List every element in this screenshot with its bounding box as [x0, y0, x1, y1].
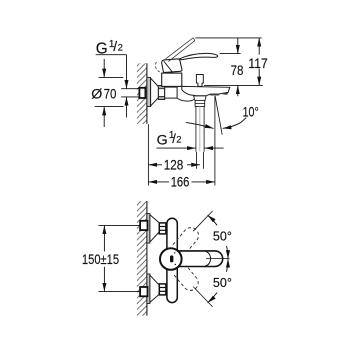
dome center black mark [170, 255, 173, 262]
dimension G1/2 (top) text [96, 38, 123, 58]
svg-text:G: G [157, 133, 168, 149]
10-degree arc right segment with arrow and leader to text [223, 118, 247, 129]
shower outlet hex block [195, 100, 205, 106]
diverter knob [196, 75, 203, 87]
shower outlet connector trapezoid [194, 96, 207, 101]
150+-15 extension lines [99, 224, 140, 226]
10-degree vertical reference line / 166 extension [214, 96, 216, 186]
upper hex nut [159, 223, 166, 234]
wall face extension line (128/166) [147, 124, 149, 185]
lever (plan view) [177, 251, 223, 267]
svg-text:/: / [113, 38, 117, 54]
handle dome [162, 59, 182, 73]
S-union hex nut (top view) [158, 86, 164, 100]
escutcheon cone top view [151, 78, 159, 106]
lower escutcheon cone [150, 275, 159, 302]
faucet body (plan, stadium) [167, 218, 177, 302]
lower hex nut [159, 284, 166, 295]
extension line spout level [204, 84, 263, 86]
dimension 117 [248, 38, 267, 86]
G1/2 extension lines [121, 88, 140, 90]
escutcheon flange (gray) top view [147, 77, 151, 106]
50-degree ray upper [193, 211, 212, 231]
dashed lever position upper (+50) [173, 225, 202, 255]
spout (top view) [182, 86, 230, 95]
O70 dimension arrows [103, 59, 105, 78]
dome circle (plan) [160, 248, 182, 270]
lower escutcheon flange (gray) [147, 274, 150, 304]
lever raised position (thin lines) [166, 38, 195, 62]
G1/2 (bottom label) text [157, 130, 182, 148]
svg-text:50°: 50° [213, 275, 232, 290]
svg-text:2: 2 [118, 43, 123, 54]
svg-text:117: 117 [248, 56, 267, 71]
lever (rest position) [179, 53, 218, 59]
dimension 128 [148, 158, 200, 173]
cartridge collar under handle [162, 73, 182, 86]
upper escutcheon cone [150, 215, 159, 242]
dimension 150+-15 [82, 225, 119, 291]
wall (top view) hatched band [137, 63, 147, 124]
svg-text:150±15: 150±15 [82, 252, 119, 268]
extension line lever rest (78) [220, 53, 241, 55]
svg-text:50°: 50° [213, 228, 232, 243]
spout aerator outlet dark detail [210, 94, 220, 96]
extension line top (117, raised lever) [195, 37, 261, 39]
handle swing dashed arc [155, 62, 159, 72]
50-degree arc lower [208, 293, 218, 303]
G1/2 top underline [96, 54, 127, 56]
G1/2 top dimension leg arrows [126, 55, 128, 89]
dashed lever position lower (-50) [173, 263, 202, 293]
dimension 166 [148, 175, 215, 190]
50-degree arc upper [208, 215, 218, 225]
G1/2 wall connection square (top view) [139, 88, 145, 98]
upper escutcheon flange (gray) [147, 214, 150, 244]
svg-text:128: 128 [164, 158, 184, 173]
shower tube extension stubs [196, 152, 198, 169]
svg-text:Ø: Ø [91, 86, 102, 102]
lever cap inner arc [206, 251, 211, 266]
lower G1/2 square [140, 287, 147, 296]
svg-text:2: 2 [176, 135, 181, 146]
svg-text:70: 70 [104, 85, 117, 101]
wall (bottom view) hatched band [137, 201, 147, 316]
10-degree angled stream line [215, 96, 222, 135]
G1/2 bottom leader with arrow (left) [156, 147, 195, 149]
O70 extension lines [99, 76, 124, 78]
upper G1/2 square [140, 221, 147, 230]
10-degree arc left segment with arrow [186, 122, 214, 128]
svg-text:78: 78 [231, 63, 244, 78]
G1/2 bottom leader with arrow (right) [204, 147, 223, 149]
svg-text:166: 166 [171, 175, 190, 190]
dimension 78 [231, 38, 244, 96]
svg-text:10°: 10° [243, 105, 259, 121]
50-degree ray lower [193, 287, 212, 307]
faucet body connection block [165, 87, 177, 98]
handle dome inner edge [164, 61, 173, 72]
lever axis line [206, 257, 230, 259]
shower outlet tube [196, 106, 204, 151]
body underside curve to spout [177, 98, 194, 101]
